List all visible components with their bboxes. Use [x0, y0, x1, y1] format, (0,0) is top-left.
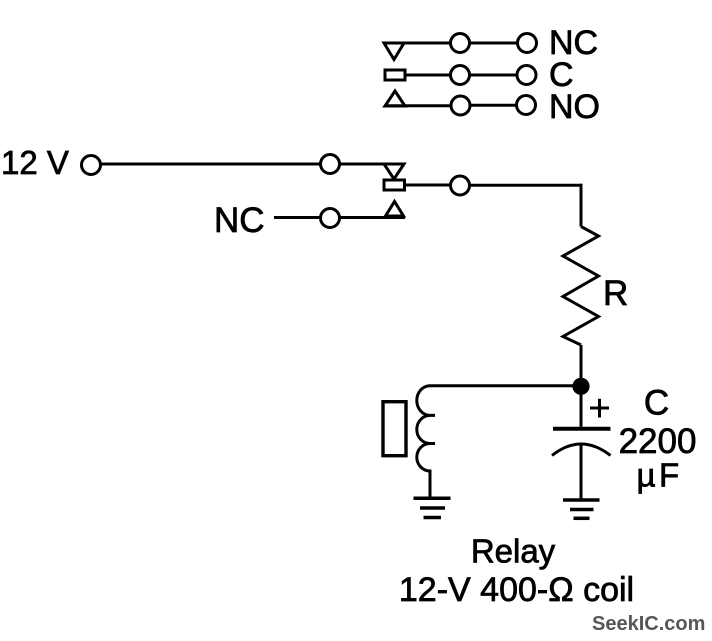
capacitor C negative curved plate — [552, 444, 611, 456]
wire legend NO row left segment — [385, 104, 451, 107]
wire NC node right segment to NO contact — [340, 216, 406, 219]
legend NO contact triangle symbol — [385, 91, 405, 106]
legend C common contact bar symbol — [385, 70, 405, 80]
wire common contact to terminal — [405, 184, 452, 187]
wire coil bottom lead — [429, 470, 432, 500]
terminal circle 12V input — [82, 156, 101, 175]
wire legend NC row middle segment — [470, 42, 518, 45]
svg-text:Relay: Relay — [471, 533, 556, 570]
node junction dot (R / C / coil) — [572, 378, 589, 395]
svg-text:NO: NO — [549, 88, 600, 126]
svg-text:2200: 2200 — [619, 422, 697, 461]
wire 12V rail left segment — [101, 163, 321, 166]
relay coil L (winding) — [417, 386, 435, 471]
wire legend C row left segment — [405, 74, 451, 77]
terminal circle legend C right — [517, 66, 536, 85]
svg-text:NC: NC — [214, 201, 265, 240]
terminal circle legend NC right — [518, 34, 537, 53]
svg-text:12-V 400-Ω coil: 12-V 400-Ω coil — [399, 571, 634, 609]
plus polarity mark — [590, 399, 609, 418]
wire common output to resistor top (horizontal) — [470, 184, 583, 187]
svg-text:C: C — [644, 384, 669, 423]
wire legend NC row left segment — [384, 42, 451, 45]
svg-text:SeekIC.com: SeekIC.com — [592, 613, 705, 635]
legend NC contact triangle symbol — [384, 43, 404, 60]
svg-text:R: R — [603, 274, 628, 313]
svg-text:12 V: 12 V — [1, 144, 69, 181]
terminal circle common output — [451, 176, 470, 195]
switch common contact bar C — [384, 180, 405, 190]
terminal circle legend C left — [451, 66, 470, 85]
wire node to relay coil (horizontal) — [430, 384, 582, 387]
terminal circle legend NC left — [451, 34, 470, 53]
ground under capacitor — [563, 500, 600, 518]
svg-text:µF: µF — [637, 457, 683, 494]
wire NC node left segment — [274, 216, 321, 219]
relay frame rectangle — [383, 402, 406, 456]
ground under relay coil — [414, 498, 451, 517]
switch NC contact triangle (relay armature contact) — [384, 164, 404, 179]
wire legend C row middle segment — [470, 74, 518, 77]
wire resistor top vertical lead — [580, 184, 583, 227]
capacitor C positive plate — [553, 427, 611, 431]
wire node to capacitor top plate — [580, 392, 583, 427]
wire capacitor bottom lead — [580, 444, 583, 501]
terminal circle legend NO right — [517, 96, 536, 115]
wire 12V rail right segment to NC contact — [340, 163, 387, 166]
terminal circle NC node — [321, 209, 340, 228]
switch NO contact triangle — [386, 202, 404, 217]
wire legend NO row middle segment — [470, 104, 517, 107]
terminal circle legend NO left — [451, 96, 470, 115]
resistor R — [563, 227, 599, 346]
wire resistor bottom lead to node — [580, 345, 583, 387]
terminal circle 12V rail middle — [321, 155, 340, 174]
